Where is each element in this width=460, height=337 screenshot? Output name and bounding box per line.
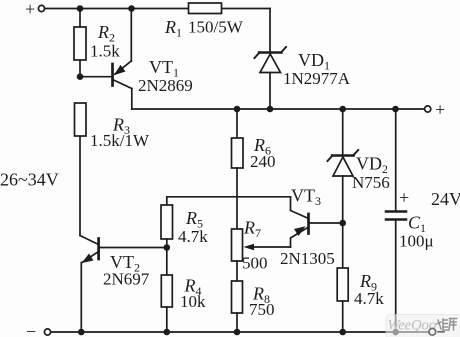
- watermark hanzi weiku: [437, 319, 457, 331]
- svg-text:1.5k/1W: 1.5k/1W: [90, 131, 150, 150]
- resistor R5: [161, 205, 208, 246]
- node junction R9 bottom: [339, 329, 346, 336]
- node - input terminal: [26, 322, 51, 337]
- svg-text:1.5k: 1.5k: [90, 42, 120, 61]
- svg-text:24V: 24V: [431, 189, 460, 209]
- node junction top rail VT1 emitter: [128, 5, 135, 12]
- wire VD1 to output rail: [269, 73, 271, 110]
- svg-text:750: 750: [249, 300, 275, 319]
- transistor VT3 2N1305: [280, 186, 343, 269]
- wire R8 bottom: [236, 313, 238, 332]
- node junction VD2 top: [339, 106, 346, 113]
- svg-text:4.7k: 4.7k: [354, 289, 384, 308]
- wire R9 bottom: [342, 301, 344, 332]
- node - output terminal: [429, 328, 444, 335]
- svg-text:2N1305: 2N1305: [280, 249, 335, 268]
- svg-text:10k: 10k: [180, 292, 206, 311]
- wire VD1 drop: [269, 9, 271, 53]
- capacitor C1 100u: [386, 109, 434, 332]
- wire R2 to base node: [79, 60, 81, 77]
- resistor R6: [232, 135, 276, 171]
- wire R6 branch: [236, 109, 238, 138]
- svg-text:240: 240: [250, 152, 276, 171]
- node junction R8 bottom: [234, 329, 241, 336]
- svg-text:+: +: [435, 100, 445, 120]
- node base of VT1: [77, 73, 84, 80]
- wire R6 to R7: [236, 168, 238, 229]
- wire R2 branch: [79, 9, 81, 28]
- svg-text:−: −: [26, 322, 36, 337]
- svg-text:2N2869: 2N2869: [138, 76, 193, 95]
- wire top rail: [45, 8, 270, 10]
- node junction R4 bottom: [164, 329, 171, 336]
- resistor R2: [74, 22, 120, 61]
- svg-text:R1: R1: [164, 17, 182, 40]
- transistor VT2 2N697: [80, 236, 167, 333]
- zener diode VD2 N756: [328, 150, 390, 192]
- wire VD2 branch: [342, 109, 344, 155]
- watermark background: [386, 315, 460, 337]
- svg-text:+: +: [25, 0, 35, 19]
- svg-text:150/5W: 150/5W: [188, 18, 244, 37]
- svg-text:4.7k: 4.7k: [178, 227, 208, 246]
- svg-text:100μ: 100μ: [399, 232, 434, 251]
- svg-text:26~34V: 26~34V: [0, 170, 59, 190]
- node junction top rail R2: [77, 5, 84, 12]
- zener diode VD1 1N2977A: [255, 47, 351, 88]
- node junction VT2 emitter bottom: [78, 329, 85, 336]
- node junction R5 R4 VT2 base: [164, 244, 171, 251]
- svg-text:R7: R7: [243, 218, 261, 241]
- node + input terminal: [25, 0, 45, 19]
- resistor R4: [161, 275, 206, 311]
- svg-text:500: 500: [242, 254, 268, 273]
- svg-text:1N2977A: 1N2977A: [283, 69, 351, 88]
- wire R9 top: [342, 223, 344, 268]
- wire bottom bus: [51, 331, 430, 333]
- wire R4 bottom: [166, 307, 168, 332]
- wire R4 top: [166, 248, 168, 276]
- resistor R1: [164, 3, 244, 40]
- svg-text:N756: N756: [352, 173, 390, 192]
- svg-text:+: +: [399, 188, 409, 208]
- wire R5 top rail: [167, 197, 291, 205]
- wire R3 to VT2 collector: [79, 136, 81, 236]
- svg-text:VT3: VT3: [291, 186, 321, 209]
- resistor R9: [337, 268, 384, 308]
- resistor R8: [232, 281, 275, 319]
- node junction R6 top: [234, 106, 241, 113]
- wire R7 to R8: [236, 261, 238, 281]
- svg-text:2N697: 2N697: [103, 270, 150, 289]
- potentiometer R7: [232, 218, 291, 273]
- node junction C1 top: [392, 106, 399, 113]
- wire VD2 to VT3 base node: [342, 176, 344, 223]
- node junction VD1 bottom: [267, 106, 274, 113]
- transistor VT1 2N2869: [113, 9, 193, 110]
- wire VT1 base: [80, 76, 111, 78]
- wire output rail: [132, 108, 425, 110]
- wire R5 bottom: [166, 239, 168, 248]
- node junction VT3 base VD2 R9: [339, 220, 346, 227]
- resistor R3: [75, 103, 150, 150]
- node junction C1 bottom: [392, 329, 399, 336]
- node output terminal +: [425, 100, 446, 120]
